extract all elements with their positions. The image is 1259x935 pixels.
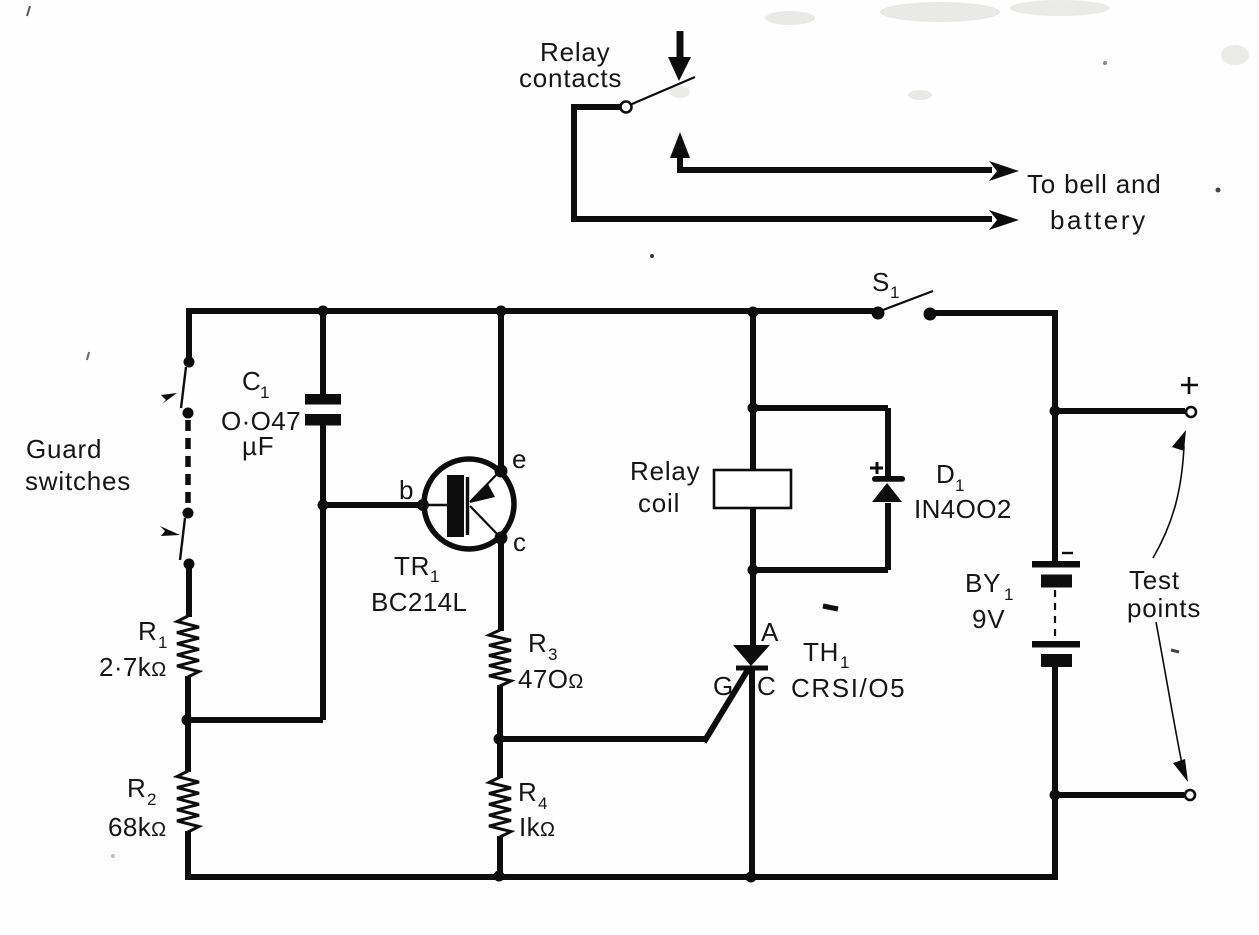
node: guard switch top terminal [184,357,195,368]
TR1 base inner lead [423,504,448,506]
battery minus mark [1062,552,1073,554]
wire relay branch upper [750,312,756,470]
svg-text:To bell and: To bell and [1027,169,1162,199]
actuator arrow 2 [160,526,180,536]
svg-text:BC214L: BC214L [371,587,467,617]
node: relay/D1 bottom junction [748,565,759,576]
node: collector dot c [495,532,508,545]
node: emitter dot e [495,465,508,478]
svg-text:CRSI/O5: CRSI/O5 [791,673,906,703]
node: minus test point junction [1050,790,1061,801]
battery BY1 plate 1 (long) [1032,561,1080,568]
wire relay coil to TH1 [750,508,756,646]
stray dot top [1103,61,1107,65]
node: relay/D1 top junction [748,403,759,414]
arrowhead to bell (lower) [989,210,1019,230]
capacitor C1 bottom plate [305,414,341,426]
svg-text:b: b [399,475,414,505]
wire from R1/R2 junction to C1 branch [187,717,323,723]
resistor R4 [489,777,511,837]
svg-text:c: c [513,527,527,557]
svg-text:68kΩ: 68kΩ [108,812,166,842]
svg-text:47OΩ: 47OΩ [518,664,584,694]
svg-text:µF: µF [242,431,274,461]
svg-text:TR: TR [394,551,430,581]
node: S1 right terminal [924,308,937,321]
svg-text:G: G [713,671,734,701]
node: top rail / C1 branch [318,306,329,317]
svg-text:1: 1 [955,476,964,495]
svg-text:contacts: contacts [519,63,622,93]
stray scan mark right of battery [1171,650,1179,652]
battery BY1 plate 4 (short thick) [1041,654,1072,667]
svg-text:battery: battery [1050,205,1148,235]
svg-text:1: 1 [890,283,899,302]
svg-text:9V: 9V [972,604,1005,634]
relay contact lever [632,77,695,104]
node: top rail / emitter branch [496,306,507,317]
wire left rail between R1 and R2 [185,676,191,772]
wire gate horizontal [499,736,705,742]
TR1 collector line [470,506,500,537]
node: guard switch bottom terminal [184,559,195,570]
S1 lever [883,291,933,310]
wire D1 vertical lower [885,503,891,570]
guard switch lever 1 [181,367,186,408]
node: R4 / bottom rail [494,871,505,882]
actuator arrow 1 [161,393,177,404]
stray tick left [87,352,89,360]
node: TH1 / bottom rail [746,872,757,883]
arrow up [677,156,683,168]
plus sign at test point [1181,377,1198,394]
svg-text:TH: TH [803,637,839,667]
transistor TR1 body circle [424,459,514,549]
test points upper curved arrow [1153,446,1184,558]
node: plus test point junction [1050,406,1061,417]
scan smudge top right [670,0,1249,100]
guard switch lever 2 [180,518,185,560]
node: base terminal dot [417,499,429,511]
svg-text:C: C [242,366,262,396]
battery BY1 plate 2 (short thick) [1041,575,1072,588]
wire to plus test point [1055,408,1185,414]
stray dot right [1216,188,1221,193]
TR1 emitter line [470,471,500,502]
svg-text:S: S [872,267,890,297]
battery BY1 plate 3 (long) [1032,641,1080,648]
wire top rail right of S1 to corner [932,313,1055,562]
svg-text:IkΩ: IkΩ [519,812,555,842]
svg-text:R: R [127,773,147,803]
wire top rail [189,308,875,314]
svg-text:1: 1 [840,653,849,672]
wire upper horizontal to bell [677,167,992,173]
wire TH1 cathode to bottom rail [749,670,755,878]
wire R3 to junction [497,685,503,740]
svg-text:switches: switches [25,466,131,496]
wire to minus test point [1055,792,1184,798]
wire bottom rail [186,874,1055,880]
svg-text:D: D [936,459,956,489]
node: guard switch terminal 3 [183,508,194,519]
diode D1 cathode bar [872,476,905,482]
svg-text:points: points [1127,593,1201,623]
TR1 base bar [447,475,464,537]
svg-text:4: 4 [538,794,547,813]
svg-text:e: e [512,444,527,474]
wire D1 vertical upper [885,408,891,476]
resistor R3 [489,630,511,686]
svg-text:3: 3 [548,645,557,664]
svg-text:Test: Test [1129,565,1180,595]
node: base junction [318,500,329,511]
thyristor TH1 triangle (anode) [733,645,770,666]
stray tick top left [27,6,30,16]
battery internal dashed link [1054,590,1056,640]
thyristor TH1 cathode bar [736,666,768,671]
stray dot near bottom [111,854,115,858]
stray scan mark near TH1 [823,606,838,609]
relay coil box [714,470,791,508]
svg-text:R: R [138,616,158,646]
node: R3/R4/gate junction [494,734,505,745]
resistor R2 [177,771,199,832]
svg-text:coil: coil [638,488,680,518]
wire left rail below R2 [185,831,191,880]
resistor R1 [177,616,199,677]
svg-text:C: C [757,671,777,701]
wire base [323,502,421,508]
svg-text:BY: BY [965,568,1001,598]
svg-text:A: A [761,617,779,647]
wire lower horizontal to bell [571,216,992,222]
arrowhead to bell (upper) [989,161,1019,181]
wire junction to R4 [497,739,503,778]
wire C1 branch lower [320,425,326,720]
svg-text:IN4OO2: IN4OO2 [914,494,1012,524]
svg-text:R: R [528,628,548,658]
arrow down (moving contact actuator) [677,31,684,60]
stray scan dot [650,254,654,258]
wire emitter to top rail [498,311,504,468]
node: R1/R2 junction [182,715,193,726]
relay contact terminal (open circle) [621,102,632,113]
D1 plus sign [870,462,883,474]
diode D1 triangle [872,483,902,502]
svg-text:1: 1 [1004,585,1013,604]
svg-text:1: 1 [158,633,167,652]
TR1 base bar thin line [466,477,469,535]
test points lower curved arrow [1156,622,1182,764]
wire D1 top [753,405,888,411]
plus test point terminal (open circle) [1186,407,1196,417]
wire right rail below battery [1052,667,1058,880]
svg-text:1: 1 [430,567,439,586]
wire from relay contact to left corner [574,107,621,219]
dashed link between guard switches [185,420,191,508]
node: guard switch terminal 2 [183,408,194,419]
svg-text:2: 2 [147,790,156,809]
svg-text:1: 1 [260,383,269,402]
svg-text:Guard: Guard [26,434,102,464]
node: top rail / relay branch [748,307,759,318]
node: S1 left terminal [872,307,885,320]
wire R4 to bottom rail [497,836,503,877]
TR1 emitter arrowhead (PNP) [470,484,495,503]
minus test point terminal (open circle) [1185,790,1195,800]
svg-text:R: R [518,777,538,807]
svg-text:2·7kΩ: 2·7kΩ [99,652,167,682]
wire left rail below guard switches [186,565,192,617]
wire gate diagonal to thyristor [704,668,749,742]
svg-text:Relay: Relay [630,456,700,486]
wire D1 bottom [753,567,888,573]
capacitor C1 top plate [305,394,341,405]
wire collector down to R3 [498,540,504,631]
wire C1 branch upper [320,311,326,394]
wire left rail upper [186,308,192,363]
